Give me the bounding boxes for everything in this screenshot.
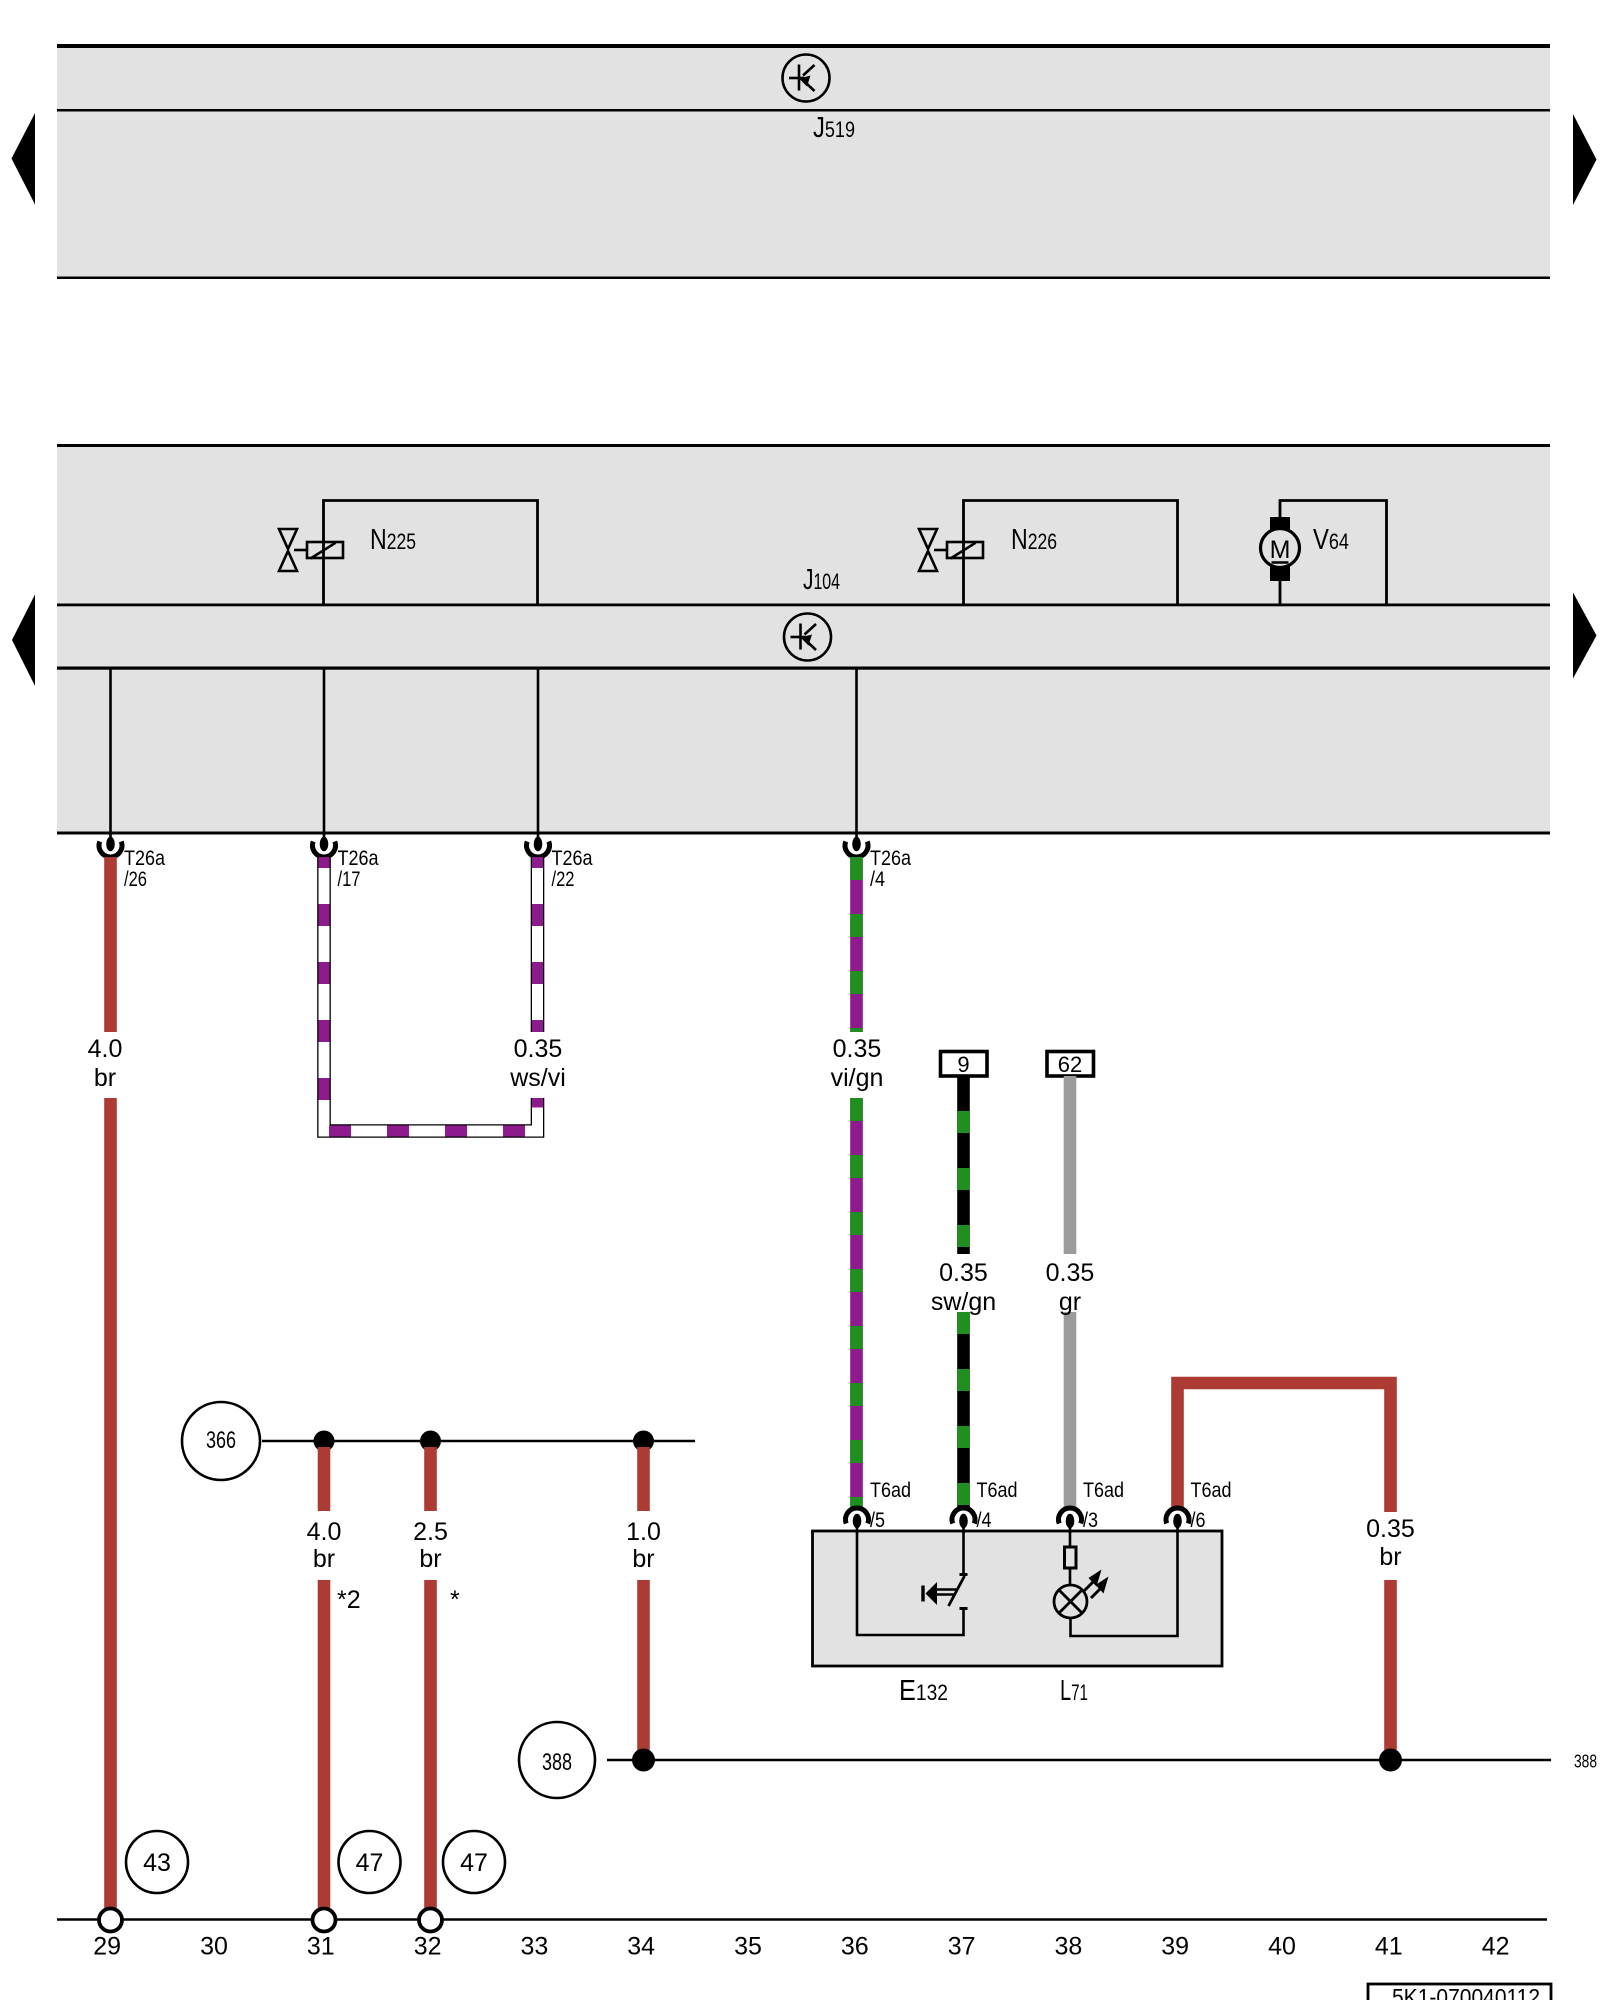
svg-text:35: 35 [734,1933,762,1961]
ground reference 47 (col 31) [339,1831,401,1893]
connector T26a/22 [527,832,593,891]
wire 0.35 ws/vi U-loop T26a/17 to T26a/22 [324,857,538,1131]
ground rail [57,1918,1547,1921]
junction dot (1.0 br) [632,1749,655,1772]
connector T6ad/6 [1166,1478,1232,1533]
svg-text:sw/gn: sw/gn [931,1288,996,1316]
terminal box 9 [941,1052,988,1078]
svg-text:J519: J519 [813,112,855,144]
wire 4.0 br from T26a/26 [104,857,117,1909]
svg-text:*2: *2 [337,1586,361,1614]
junction dot (0.35 br) [1379,1749,1402,1772]
svg-text:gr: gr [1059,1288,1081,1316]
svg-text:br: br [1379,1543,1401,1571]
ground reference 43 [126,1831,188,1893]
svg-text:42: 42 [1482,1933,1510,1961]
svg-text:39: 39 [1161,1933,1189,1961]
svg-text:ws/vi: ws/vi [509,1064,566,1092]
svg-text:/4: /4 [977,1508,992,1532]
svg-text:40: 40 [1268,1933,1296,1961]
junction dot 34 [633,1431,654,1452]
svg-text:30: 30 [200,1933,228,1961]
junction dot 32 [420,1431,441,1452]
svg-text:V64: V64 [1313,524,1349,556]
svg-text:*: * [450,1586,460,1614]
label 0.35 br [1366,1515,1415,1571]
solenoid valve N225 [279,501,538,606]
connector T6ad/5 [846,1478,912,1533]
svg-text:32: 32 [414,1933,442,1961]
internal connection symbol K (J519) [783,55,830,102]
label 2.5 br [413,1518,448,1573]
svg-text:L71: L71 [1060,1675,1088,1707]
connector T26a/17 [313,832,379,891]
page arrow right (J519 row) [1573,114,1597,205]
switch E132 (glass breakage sensor) internals [857,1532,968,1635]
svg-text:/6: /6 [1191,1508,1206,1532]
svg-text:N226: N226 [1011,524,1057,556]
svg-text:29: 29 [93,1933,121,1961]
page arrow left (J519 row) [12,113,36,205]
svg-text:br: br [313,1545,335,1573]
terminal box 62 [1047,1052,1094,1078]
wire 2.5 br to ground 47 [424,1447,437,1909]
node 366 circle [182,1402,260,1480]
svg-text:31: 31 [307,1933,335,1961]
svg-text:4.0: 4.0 [88,1035,123,1063]
internal connection symbol K (J104) [784,614,831,661]
svg-text:2.5: 2.5 [413,1518,448,1546]
svg-text:/17: /17 [338,867,361,891]
svg-text:34: 34 [627,1933,655,1961]
connector T6ad/3 [1059,1478,1125,1533]
wire 0.35 br loop from T6ad/6 to node 388 [1178,1383,1391,1756]
connector T26a/4 [845,832,911,891]
svg-text:br: br [94,1064,116,1092]
svg-text:/4: /4 [870,867,885,891]
component box E132 / L71 [813,1531,1223,1666]
wire (J104 internal) to pin 17 [323,668,326,834]
svg-text:0.35: 0.35 [1366,1515,1415,1543]
label 4.0 br [307,1518,342,1573]
wire node 388 bus line [607,1759,1551,1762]
ground symbol at column 31 [313,1909,336,1932]
wire 4.0 br to ground 47 [318,1447,331,1909]
svg-text:0.35: 0.35 [939,1259,988,1287]
label 4.0 br [88,1035,123,1092]
page arrow left (J104 row) [12,595,35,687]
svg-text:5K1-070040112: 5K1-070040112 [1392,1984,1540,2000]
label 1.0 br [626,1518,661,1573]
svg-text:br: br [419,1545,441,1573]
svg-text:366: 366 [206,1427,236,1454]
node 388 circle [519,1722,595,1798]
document number box 5K1-070040112 [1368,1984,1551,2000]
svg-text:E132: E132 [899,1675,948,1707]
label 0.35 ws/vi [509,1035,566,1092]
connector T6ad/4 [952,1478,1018,1533]
svg-text:47: 47 [356,1849,384,1877]
label 0.35 gr [1046,1259,1095,1316]
wire 0.35 vi/gn from T26a/4 [850,857,863,1508]
svg-text:T6ad: T6ad [1191,1478,1232,1502]
junction dot 31 [314,1431,335,1452]
svg-text:4.0: 4.0 [307,1518,342,1546]
label 0.35 sw/gn [931,1259,996,1316]
svg-text:62: 62 [1058,1052,1082,1077]
svg-text:1.0: 1.0 [626,1518,661,1546]
svg-text:T6ad: T6ad [870,1478,911,1502]
svg-text:9: 9 [957,1052,969,1077]
wire 0.35 gr from terminal 62 [1064,1076,1077,1508]
grid coordinate numbers 29-42 [93,1933,1509,1961]
wire (J104 internal) to pin 22 [537,668,540,834]
wire 1.0 br to node 388 [637,1447,650,1756]
svg-text:vi/gn: vi/gn [831,1064,884,1092]
control unit J104 band [57,444,1550,835]
svg-text:0.35: 0.35 [514,1035,563,1063]
ground reference 47 (col 32) [443,1831,505,1893]
svg-text:/26: /26 [124,867,147,891]
svg-text:0.35: 0.35 [1046,1259,1095,1287]
motor V64 [1261,501,1387,606]
svg-text:388: 388 [1574,1752,1597,1772]
svg-text:41: 41 [1375,1933,1403,1961]
wire 0.35 sw/gn from terminal 9 [957,1076,970,1508]
svg-text:36: 36 [841,1933,869,1961]
svg-text:/5: /5 [870,1508,885,1532]
svg-text:T6ad: T6ad [977,1478,1018,1502]
svg-text:N225: N225 [370,524,416,556]
wire (J104 internal) to pin 4 [855,668,858,834]
svg-text:J104: J104 [803,564,840,596]
warning lamp L71 internals [1054,1532,1178,1636]
control unit J519 band [57,44,1550,279]
label 0.35 vi/gn [831,1035,884,1092]
svg-text:/22: /22 [552,867,575,891]
svg-text:43: 43 [143,1849,171,1877]
svg-text:37: 37 [948,1933,976,1961]
svg-text:/3: /3 [1083,1508,1098,1532]
svg-text:388: 388 [542,1749,572,1776]
solenoid valve N226 [919,501,1178,606]
svg-text:33: 33 [520,1933,548,1961]
page arrow right (J104 row) [1573,593,1597,679]
wire (J104 internal) to pin 26 [109,668,112,834]
svg-text:br: br [632,1545,654,1573]
ground symbol at column 29 [99,1909,122,1932]
connector T26a/26 [99,832,165,891]
svg-text:T6ad: T6ad [1083,1478,1124,1502]
svg-text:0.35: 0.35 [833,1035,882,1063]
svg-text:47: 47 [460,1849,488,1877]
ground symbol at column 32 [419,1909,442,1932]
wire node 366 bus line [262,1440,695,1443]
svg-text:M: M [1270,536,1291,564]
svg-text:38: 38 [1054,1933,1082,1961]
